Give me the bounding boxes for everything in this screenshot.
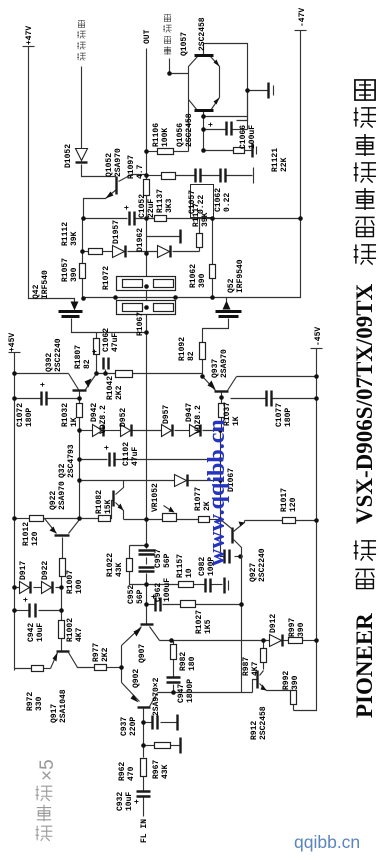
svg-text:4K7: 4K7 <box>75 627 84 642</box>
svg-text:2SA970: 2SA970 <box>114 148 123 177</box>
svg-text:R1022: R1022 <box>106 553 115 577</box>
svg-text:100uF: 100uF <box>248 125 257 149</box>
svg-text:82: 82 <box>187 351 196 361</box>
svg-text:PIONEER: PIONEER <box>352 613 377 718</box>
svg-text:390: 390 <box>291 675 300 690</box>
svg-text:×5: ×5 <box>37 759 58 781</box>
svg-text:C942: C942 <box>27 623 36 642</box>
svg-text:390: 390 <box>198 273 207 288</box>
svg-text:4K7: 4K7 <box>251 661 260 676</box>
svg-text:R962: R962 <box>118 762 127 781</box>
svg-text:1K5: 1K5 <box>204 619 213 634</box>
svg-text:2SC4793: 2SC4793 <box>67 444 76 478</box>
svg-text:1800P: 1800P <box>186 679 195 703</box>
svg-text:R977: R977 <box>92 643 101 662</box>
svg-text:D952: D952 <box>119 408 128 427</box>
svg-text:Q917: Q917 <box>50 704 59 723</box>
svg-text:0.22: 0.22 <box>223 193 232 212</box>
svg-text:2SC2240: 2SC2240 <box>54 338 63 372</box>
svg-text:R1092: R1092 <box>178 337 187 361</box>
svg-text:C932: C932 <box>116 792 125 811</box>
svg-text:R987: R987 <box>242 657 251 676</box>
svg-text:+: + <box>150 594 159 599</box>
svg-text:180P: 180P <box>25 408 34 427</box>
svg-text:22uF: 22uF <box>147 199 156 218</box>
svg-text:R982: R982 <box>179 652 188 671</box>
svg-text:Q902: Q902 <box>132 669 141 688</box>
svg-text:43K: 43K <box>115 562 124 577</box>
svg-text:22K: 22K <box>280 157 289 172</box>
svg-text:+: + <box>123 205 132 210</box>
svg-text:C1066: C1066 <box>239 125 248 149</box>
svg-text:D912: D912 <box>269 614 278 633</box>
svg-text:3K3: 3K3 <box>165 198 174 213</box>
svg-text:D922: D922 <box>41 561 50 580</box>
svg-text:R1137: R1137 <box>156 189 165 213</box>
svg-text:2SA970: 2SA970 <box>220 349 229 378</box>
svg-text:qqibb.cn: qqibb.cn <box>294 832 360 852</box>
svg-text:100K: 100K <box>161 128 170 147</box>
svg-text:VDZ8.2: VDZ8.2 <box>194 405 203 434</box>
svg-text:10uF: 10uF <box>36 623 45 642</box>
svg-text:Q1056: Q1056 <box>176 123 185 147</box>
svg-text:Q937: Q937 <box>211 359 220 378</box>
svg-text:C937: C937 <box>120 717 129 736</box>
svg-text:R1106: R1106 <box>152 123 161 147</box>
svg-text:VR1052: VR1052 <box>151 483 160 512</box>
svg-text:C1052: C1052 <box>138 194 147 218</box>
svg-text:R1807: R1807 <box>74 345 83 369</box>
svg-text:180: 180 <box>188 656 197 671</box>
svg-text:390: 390 <box>297 622 306 637</box>
svg-text:+: + <box>103 445 112 450</box>
svg-text:R912: R912 <box>250 721 259 740</box>
svg-text:82: 82 <box>83 359 92 369</box>
svg-text:470: 470 <box>127 766 136 781</box>
svg-text:+45V: +45V <box>8 333 17 352</box>
svg-text:C952: C952 <box>127 585 136 604</box>
svg-text:+: + <box>22 597 31 602</box>
svg-text:R1072: R1072 <box>102 266 111 290</box>
svg-text:R1057: R1057 <box>61 258 70 282</box>
svg-text:D947: D947 <box>185 403 194 422</box>
svg-text:1K: 1K <box>232 416 241 426</box>
svg-text:R1121: R1121 <box>271 148 280 172</box>
svg-text:10: 10 <box>185 568 194 578</box>
svg-text:C1072: C1072 <box>16 403 25 427</box>
svg-text:330: 330 <box>35 696 44 711</box>
svg-text:Q42: Q42 <box>32 284 41 299</box>
svg-text:47uF: 47uF <box>111 333 120 352</box>
svg-text:R1042: R1042 <box>106 376 115 400</box>
svg-text:IRF9540: IRF9540 <box>236 259 245 293</box>
svg-text:R992: R992 <box>282 671 291 690</box>
svg-text:D917: D917 <box>19 561 28 580</box>
svg-text:R1077: R1077 <box>194 487 203 511</box>
svg-text:180P: 180P <box>284 408 293 427</box>
svg-text:www.qqibb.cn: www.qqibb.cn <box>204 419 230 566</box>
svg-text:IRF540: IRF540 <box>41 270 50 299</box>
svg-text:1K: 1K <box>70 417 79 427</box>
svg-text:Q392: Q392 <box>45 353 54 372</box>
svg-text:2SC2458: 2SC2458 <box>185 113 194 147</box>
svg-text:100uF: 100uF <box>163 578 172 602</box>
svg-text:R1062: R1062 <box>189 264 198 288</box>
svg-text:R1032: R1032 <box>61 403 70 427</box>
svg-text:100: 100 <box>75 579 84 594</box>
svg-text:R1027: R1027 <box>195 610 204 634</box>
svg-text:R1002: R1002 <box>66 618 75 642</box>
svg-text:2K2: 2K2 <box>115 385 124 400</box>
svg-text:D942: D942 <box>90 403 99 422</box>
svg-text:-45V: -45V <box>314 327 323 346</box>
svg-text:39K: 39K <box>201 212 210 227</box>
svg-text:R1112: R1112 <box>61 222 70 246</box>
svg-text:R972: R972 <box>26 692 35 711</box>
svg-text:Q922: Q922 <box>49 491 58 510</box>
svg-text:C1077: C1077 <box>275 403 284 427</box>
svg-text:Q1057: Q1057 <box>180 32 189 56</box>
svg-text:2SC2458: 2SC2458 <box>198 17 207 51</box>
svg-text:120: 120 <box>289 497 298 512</box>
svg-text:D957: D957 <box>162 405 171 424</box>
svg-text:R967: R967 <box>152 760 161 779</box>
svg-text:R1067: R1067 <box>136 312 145 336</box>
svg-text:Q32: Q32 <box>58 463 67 478</box>
svg-text:R1117: R1117 <box>192 203 201 227</box>
svg-text:15K: 15K <box>104 499 113 514</box>
svg-text:120: 120 <box>31 531 40 546</box>
svg-text:OUT: OUT <box>143 29 152 44</box>
svg-text:Q1052: Q1052 <box>105 153 114 177</box>
svg-text:C1102: C1102 <box>122 442 131 466</box>
svg-text:C957: C957 <box>154 549 163 568</box>
svg-text:R1097: R1097 <box>127 155 136 179</box>
svg-text:56P: 56P <box>163 553 172 568</box>
svg-text:D1962: D1962 <box>136 228 145 252</box>
svg-text:4.7: 4.7 <box>136 164 145 179</box>
svg-text:VSX-D906S/07TX/09TX: VSX-D906S/07TX/09TX <box>352 283 377 524</box>
svg-text:D1052: D1052 <box>64 144 73 168</box>
svg-text:R1007: R1007 <box>66 570 75 594</box>
svg-text:FL IN: FL IN <box>140 819 149 843</box>
svg-text:2SA970: 2SA970 <box>58 481 67 510</box>
svg-text:390: 390 <box>70 267 79 282</box>
svg-text:R1157: R1157 <box>176 554 185 578</box>
svg-text:2SA1048: 2SA1048 <box>59 689 68 723</box>
svg-text:+: + <box>207 122 216 127</box>
svg-text:2K2: 2K2 <box>101 647 110 662</box>
svg-text:+: + <box>133 799 142 804</box>
svg-text:+: + <box>91 349 100 354</box>
svg-text:Q907: Q907 <box>138 644 147 663</box>
svg-text:2SA970×2: 2SA970×2 <box>152 677 161 716</box>
svg-text:Q927: Q927 <box>249 563 258 582</box>
svg-text:VDZ8.2: VDZ8.2 <box>99 405 108 434</box>
svg-text:R997: R997 <box>288 618 297 637</box>
svg-text:Q52: Q52 <box>227 278 236 293</box>
svg-text:C1062: C1062 <box>102 328 111 352</box>
svg-text:+47V: +47V <box>25 26 34 45</box>
svg-text:C1062: C1062 <box>214 188 223 212</box>
svg-text:D1957: D1957 <box>112 220 121 244</box>
svg-text:43K: 43K <box>161 764 170 779</box>
svg-text:47uF: 47uF <box>131 447 140 466</box>
svg-text:+: + <box>39 382 48 387</box>
svg-text:R1012: R1012 <box>22 522 31 546</box>
svg-text:39K: 39K <box>70 231 79 246</box>
svg-text:R1082: R1082 <box>95 490 104 514</box>
svg-text:-47V: -47V <box>298 8 307 27</box>
svg-text:56P: 56P <box>136 589 145 604</box>
svg-text:220P: 220P <box>129 717 138 736</box>
svg-text:C947: C947 <box>177 684 186 703</box>
svg-text:2SC2458: 2SC2458 <box>259 706 268 740</box>
svg-text:2SC2240: 2SC2240 <box>258 548 267 582</box>
svg-text:R1017: R1017 <box>280 488 289 512</box>
